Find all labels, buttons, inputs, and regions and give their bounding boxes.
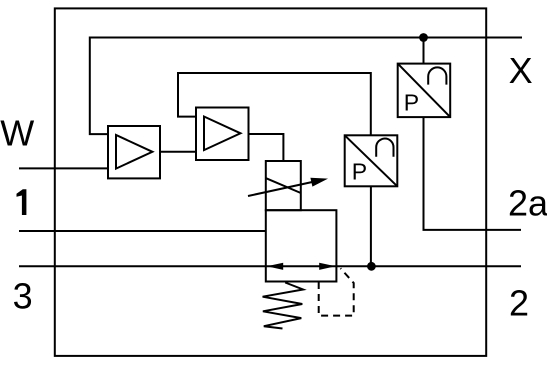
svg-text:W: W — [0, 112, 34, 153]
throttle diagonal — [266, 178, 301, 193]
sensor B2 diagonal — [398, 64, 451, 118]
spring — [263, 283, 304, 329]
proportional throttle box — [266, 161, 301, 210]
op-amp U1 box — [108, 126, 160, 178]
pressure sensor B2 box — [398, 64, 451, 118]
junction output node — [367, 262, 376, 271]
label 1 — [17, 189, 27, 215]
svg-text:2: 2 — [509, 283, 529, 324]
throttle adjustment arrow — [248, 180, 322, 196]
svg-text:P: P — [352, 159, 367, 185]
svg-text:X: X — [509, 50, 533, 91]
op-amp U2 box — [196, 108, 249, 161]
wire sensor B2 to port 2a — [424, 117, 522, 230]
junction X node — [419, 33, 428, 42]
wire sensor B1 to junction — [370, 186, 372, 266]
wire sensor B2 to X rail — [423, 38, 425, 64]
regulator right arrowhead — [319, 263, 335, 270]
enclosure border (valve body outline) — [55, 8, 486, 356]
op-amp U2 triangle — [204, 117, 241, 151]
regulator main box — [266, 210, 337, 281]
wire X line (setpoint feedback rail, y=37.5) — [90, 37, 522, 39]
svg-text:P: P — [404, 90, 419, 116]
pilot line (dashed) — [319, 268, 354, 315]
wire U1 output to U2 — [160, 151, 196, 153]
regulator left arrowhead — [267, 263, 283, 270]
wire port 1 line — [19, 230, 266, 232]
pressure sensor B1 box — [345, 135, 398, 186]
wire feedback drop to amplifier U1 — [90, 37, 108, 135]
svg-text:3: 3 — [13, 276, 33, 317]
wire pressure feedback loop to amplifier U2 — [178, 73, 371, 135]
svg-text:2a: 2a — [508, 183, 547, 224]
sensor B1 diagonal — [345, 135, 398, 186]
wire U2 output to proportional throttle — [249, 134, 284, 161]
wire main flow line 3 to 2 (y=266.3) — [19, 265, 521, 267]
sensor B1 membrane arc — [376, 139, 393, 157]
op-amp U1 triangle — [116, 135, 152, 169]
sensor B2 membrane arc — [428, 67, 446, 84]
wire W input — [19, 167, 108, 169]
